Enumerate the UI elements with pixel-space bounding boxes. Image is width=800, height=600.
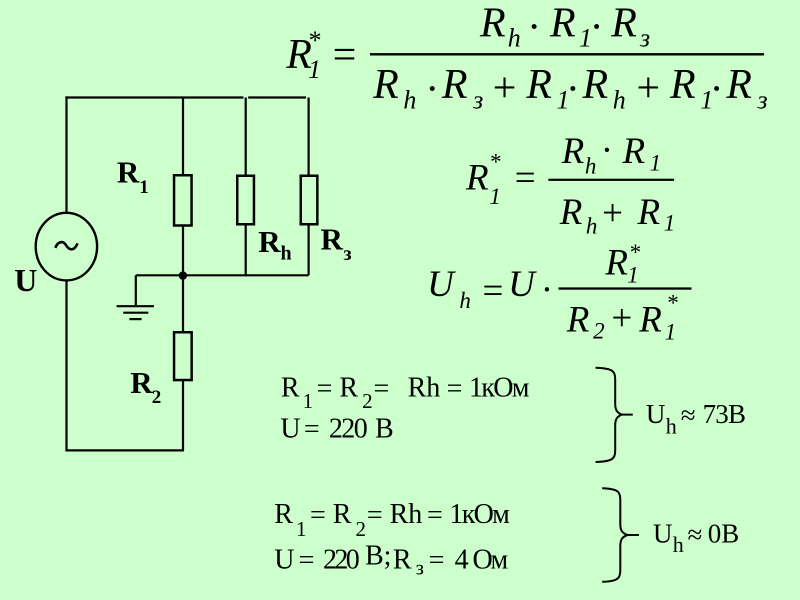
svg-text:=: =	[317, 374, 333, 405]
svg-text:R: R	[725, 62, 752, 108]
svg-text:*: *	[307, 26, 320, 55]
svg-text:2: 2	[593, 319, 605, 344]
svg-text:2: 2	[356, 517, 367, 541]
svg-text:h: h	[459, 288, 471, 313]
svg-text:=: =	[480, 271, 505, 312]
svg-text:·: ·	[426, 67, 437, 113]
svg-text:·: ·	[567, 67, 578, 113]
svg-text:+: +	[609, 298, 634, 339]
svg-text:=: =	[330, 33, 358, 79]
svg-text:Rh: Rh	[408, 373, 441, 404]
svg-text:R: R	[637, 192, 661, 233]
svg-text:U: U	[274, 544, 294, 575]
svg-text:·: ·	[591, 5, 602, 51]
svg-text:з: з	[416, 555, 424, 579]
svg-text:2: 2	[152, 387, 162, 408]
svg-text:1: 1	[308, 55, 321, 84]
svg-text:·: ·	[528, 5, 539, 51]
svg-text:4: 4	[455, 544, 469, 575]
svg-text:R: R	[669, 62, 696, 108]
svg-text:R: R	[465, 157, 489, 198]
svg-text:=: =	[427, 500, 443, 531]
svg-text:U: U	[653, 519, 673, 549]
svg-text:=: =	[367, 500, 383, 531]
svg-text:R: R	[281, 373, 300, 404]
svg-text:=: =	[304, 414, 320, 445]
svg-text:h: h	[508, 23, 521, 52]
svg-text:з: з	[472, 86, 483, 115]
svg-text:U: U	[646, 399, 666, 429]
svg-text:*: *	[489, 149, 501, 174]
svg-text:R: R	[566, 299, 590, 340]
svg-text:R: R	[549, 0, 576, 46]
svg-text:1: 1	[665, 319, 677, 344]
svg-text:R: R	[321, 222, 344, 257]
svg-text:U: U	[508, 264, 537, 305]
svg-text:1: 1	[650, 151, 662, 176]
svg-text:·: ·	[602, 130, 611, 171]
svg-text:*: *	[666, 291, 678, 316]
svg-text:1кОм: 1кОм	[469, 373, 530, 404]
svg-text:h: h	[281, 243, 292, 265]
svg-text:R: R	[525, 62, 552, 108]
svg-text:R: R	[130, 365, 153, 400]
svg-text:+: +	[600, 193, 625, 234]
svg-text:1кОм: 1кОм	[449, 499, 510, 530]
svg-text:R: R	[258, 224, 281, 259]
svg-text:h: h	[585, 153, 597, 178]
svg-text:1: 1	[139, 177, 149, 198]
svg-text:2: 2	[362, 389, 373, 413]
svg-text:з: з	[757, 86, 768, 115]
svg-text:U: U	[14, 262, 37, 298]
svg-text:h: h	[586, 213, 598, 238]
svg-text:R: R	[638, 299, 662, 340]
svg-text:h: h	[403, 86, 416, 115]
svg-text:R: R	[622, 131, 646, 172]
svg-text:=: =	[310, 500, 326, 531]
svg-text:R: R	[559, 192, 583, 233]
svg-text:1: 1	[303, 389, 314, 413]
svg-text:220: 220	[323, 544, 359, 575]
svg-text:1: 1	[664, 211, 676, 236]
svg-text:=: =	[374, 374, 390, 405]
svg-text:R: R	[117, 155, 140, 190]
svg-text:U: U	[280, 414, 300, 445]
svg-text:R: R	[339, 373, 358, 404]
svg-text:R: R	[610, 0, 637, 46]
svg-text:Ом: Ом	[473, 544, 509, 575]
svg-text:R: R	[333, 499, 352, 530]
svg-text:Rh: Rh	[390, 499, 423, 530]
svg-text:U: U	[427, 264, 456, 305]
svg-text:h: h	[666, 413, 677, 438]
svg-text:R: R	[274, 499, 293, 530]
svg-text:В;: В;	[365, 540, 391, 571]
svg-text:з: з	[344, 243, 352, 265]
svg-text:*: *	[629, 240, 641, 265]
svg-text:≈: ≈	[688, 520, 703, 550]
svg-text:=: =	[447, 374, 463, 405]
svg-text:+: +	[490, 66, 518, 112]
svg-text:1: 1	[627, 263, 639, 288]
svg-text:R: R	[479, 0, 506, 46]
svg-text:=: =	[429, 545, 445, 576]
svg-text:R: R	[372, 62, 399, 108]
svg-text:R: R	[561, 131, 585, 172]
svg-text:+: +	[634, 66, 662, 112]
svg-text:·: ·	[711, 67, 722, 113]
svg-text:R: R	[393, 544, 412, 575]
svg-text:·: ·	[542, 270, 551, 311]
svg-text:h: h	[613, 86, 626, 115]
svg-text:220: 220	[329, 414, 367, 445]
svg-text:R: R	[441, 62, 468, 108]
svg-text:з: з	[639, 23, 650, 52]
svg-text:R: R	[604, 243, 628, 284]
svg-text:1: 1	[296, 517, 307, 541]
svg-text:73В: 73В	[703, 399, 746, 429]
svg-text:0В: 0В	[708, 519, 740, 549]
svg-text:≈: ≈	[681, 400, 696, 430]
svg-text:1: 1	[489, 184, 501, 209]
svg-text:=: =	[299, 545, 315, 576]
svg-text:h: h	[673, 532, 684, 557]
svg-text:=: =	[512, 158, 537, 199]
svg-text:R: R	[582, 62, 609, 108]
svg-text:В: В	[375, 414, 394, 445]
